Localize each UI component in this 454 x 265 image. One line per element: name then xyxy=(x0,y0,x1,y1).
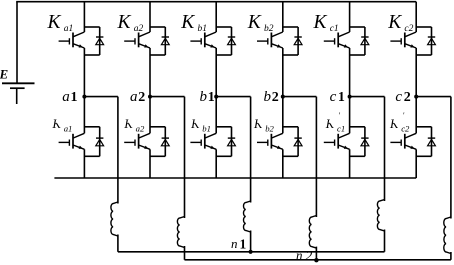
svg-text:c2: c2 xyxy=(404,24,413,34)
inductor winding L_b2 xyxy=(309,216,316,249)
IGBT K'_a1 xyxy=(59,133,85,149)
diode D_b1 xyxy=(216,27,235,55)
inductor winding L_a1 xyxy=(111,202,118,236)
wire node a1 to winding xyxy=(84,96,118,98)
diode D'_c1 xyxy=(350,127,369,157)
svg-text:a2: a2 xyxy=(136,124,145,134)
svg-text:b1: b1 xyxy=(202,124,211,134)
diode D'_b2 xyxy=(283,127,302,157)
node n1 xyxy=(249,250,253,254)
wire winding b1 drop xyxy=(250,97,252,203)
diode D'_a1 xyxy=(84,127,103,157)
diode D'_a2 xyxy=(150,127,169,157)
wire left rail to source xyxy=(16,2,18,84)
IGBT K_b2 xyxy=(257,32,283,48)
wire node c1 to winding xyxy=(350,96,385,98)
wire node b1 to winding xyxy=(216,96,250,98)
wire winding c2 to bus xyxy=(450,252,452,260)
svg-text:′: ′ xyxy=(338,111,340,120)
wire leg c2 to node xyxy=(415,48,417,97)
svg-text:n: n xyxy=(296,248,303,263)
svg-text:K: K xyxy=(387,12,402,33)
diode D_c1 xyxy=(350,27,369,55)
wire winding a1 drop xyxy=(117,97,119,204)
svg-text:1: 1 xyxy=(208,90,215,105)
wire winding c1 drop xyxy=(384,97,386,201)
node n2 xyxy=(314,258,318,262)
svg-text:2: 2 xyxy=(306,248,313,263)
wire winding b2 drop xyxy=(315,97,317,217)
wire neutral bus n1 xyxy=(118,251,385,253)
svg-text:1: 1 xyxy=(71,90,78,105)
node b2 xyxy=(281,95,285,99)
svg-text:2: 2 xyxy=(404,90,411,105)
wire leg b1 to DC- rail xyxy=(215,149,217,178)
wire top DC+ rail xyxy=(16,1,416,3)
svg-text:c: c xyxy=(330,89,337,105)
wire leg b2 to node xyxy=(282,48,284,97)
wire bottom DC- rail xyxy=(54,177,416,179)
inductor winding L_c2 xyxy=(444,217,451,254)
svg-text:b: b xyxy=(264,89,272,105)
wire leg b1 to node xyxy=(215,48,217,97)
IGBT K_b1 xyxy=(190,32,216,48)
svg-text:K: K xyxy=(117,12,132,33)
source E battery xyxy=(2,83,35,104)
wire leg c2 lower rail xyxy=(415,97,417,134)
diode D_a2 xyxy=(150,27,169,55)
wire winding a1 to bus xyxy=(117,235,119,252)
svg-text:K: K xyxy=(313,12,328,33)
wire leg b1 upper rail xyxy=(215,2,217,32)
diode D_b2 xyxy=(283,27,302,55)
svg-text:n: n xyxy=(231,236,238,251)
wire leg c2 upper rail xyxy=(415,2,417,32)
diode D'_c2 xyxy=(416,127,435,157)
node c2 xyxy=(414,95,418,99)
diode D_c2 xyxy=(416,27,435,55)
svg-text:a2: a2 xyxy=(134,24,144,34)
svg-text:b2: b2 xyxy=(265,124,274,134)
IGBT K_a2 xyxy=(124,32,150,48)
diode D'_b1 xyxy=(216,127,235,157)
IGBT K'_b1 xyxy=(190,133,216,149)
inductor winding L_c1 xyxy=(377,200,384,232)
svg-text:′: ′ xyxy=(403,111,405,120)
diode D_a1 xyxy=(84,27,103,55)
wire leg c1 to DC- rail xyxy=(349,149,351,178)
svg-text:b1: b1 xyxy=(198,24,208,34)
wire winding a2 to bus xyxy=(184,246,186,260)
inductor winding L_b1 xyxy=(244,201,251,232)
svg-text:2: 2 xyxy=(272,90,279,105)
wire leg c1 lower rail xyxy=(349,97,351,134)
wire leg a2 lower rail xyxy=(149,97,151,134)
wire winding a2 drop xyxy=(184,97,186,218)
wire winding b2 to bus xyxy=(315,247,317,260)
wire node c2 to winding xyxy=(416,96,451,98)
wire winding b1 to bus xyxy=(250,231,252,252)
wire winding c2 drop xyxy=(450,97,452,219)
wire leg a2 upper rail xyxy=(149,2,151,32)
wire leg a1 lower rail xyxy=(83,97,85,134)
svg-text:K: K xyxy=(247,12,262,33)
wire leg b1 lower rail xyxy=(215,97,217,134)
wire leg c2 to DC- rail xyxy=(415,149,417,178)
wire node a2 to winding xyxy=(150,96,185,98)
inductor winding L_a2 xyxy=(177,217,184,248)
svg-text:K: K xyxy=(47,12,62,33)
wire leg c1 to node xyxy=(349,48,351,97)
wire leg a2 to DC- rail xyxy=(149,149,151,178)
IGBT K'_c2 xyxy=(390,133,416,149)
svg-text:a1: a1 xyxy=(64,124,73,134)
svg-text:c1: c1 xyxy=(337,124,345,134)
IGBT K_c2 xyxy=(390,32,416,48)
node c1 xyxy=(348,95,352,99)
node a2 xyxy=(148,95,152,99)
IGBT K'_b2 xyxy=(257,133,283,149)
wire winding c1 to bus xyxy=(384,230,386,252)
svg-text:E: E xyxy=(0,67,9,82)
wire leg a1 upper rail xyxy=(83,2,85,32)
wire node b2 to winding xyxy=(283,96,317,98)
svg-text:b: b xyxy=(200,89,208,105)
IGBT K'_c1 xyxy=(324,133,350,149)
svg-text:a: a xyxy=(130,89,138,105)
wire leg a2 to node xyxy=(149,48,151,97)
svg-text:c1: c1 xyxy=(330,24,339,34)
wire leg b2 to DC- rail xyxy=(282,149,284,178)
wire leg a1 to DC- rail xyxy=(83,149,85,178)
wire leg a1 to node xyxy=(83,48,85,97)
wire leg b2 lower rail xyxy=(282,97,284,134)
svg-text:c: c xyxy=(395,89,402,105)
IGBT K'_a2 xyxy=(124,133,150,149)
wire leg b2 upper rail xyxy=(282,2,284,32)
svg-text:1: 1 xyxy=(240,237,247,252)
svg-text:K: K xyxy=(180,12,195,33)
wire neutral bus n2 xyxy=(185,259,451,261)
IGBT K_c1 xyxy=(324,32,350,48)
svg-text:b2: b2 xyxy=(264,24,274,34)
wire leg c1 upper rail xyxy=(349,2,351,32)
svg-text:2: 2 xyxy=(138,90,145,105)
node a1 xyxy=(82,95,86,99)
svg-text:a1: a1 xyxy=(64,24,73,34)
svg-text:1: 1 xyxy=(338,90,345,105)
node b1 xyxy=(214,95,218,99)
IGBT K_a1 xyxy=(59,32,85,48)
svg-text:a: a xyxy=(62,89,69,105)
svg-text:c2: c2 xyxy=(401,124,410,134)
